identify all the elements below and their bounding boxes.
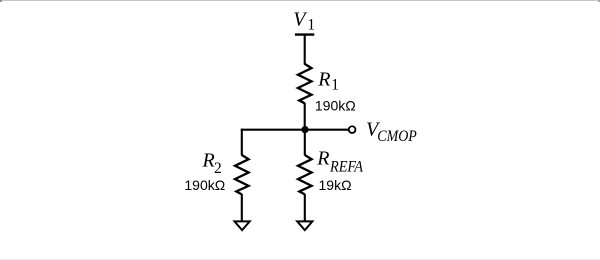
ground (left)	[235, 221, 250, 230]
svg-text:V: V	[293, 9, 308, 31]
svg-text:2: 2	[214, 160, 222, 177]
page top border	[0, 0, 600, 1]
svg-text:CMOP: CMOP	[377, 128, 417, 145]
svg-text:R: R	[317, 69, 330, 91]
wire node to RREFA	[304, 130, 306, 156]
terminal VCMOP open circle	[349, 126, 356, 133]
svg-text:19kΩ: 19kΩ	[319, 177, 352, 193]
wire R2 to ground	[241, 194, 243, 221]
wire node to R2	[241, 129, 243, 156]
wire V1 to R1	[304, 35, 306, 65]
node V1 supply bar	[295, 33, 314, 35]
resistor R1	[298, 64, 312, 103]
ground (right)	[297, 221, 312, 230]
junction node dot	[301, 126, 308, 133]
svg-text:190kΩ: 190kΩ	[184, 177, 225, 193]
svg-text:1: 1	[331, 77, 339, 94]
resistor RREFA	[298, 155, 312, 194]
wire node horizontal	[241, 129, 349, 131]
resistor R2	[235, 155, 249, 194]
svg-text:190kΩ: 190kΩ	[315, 97, 356, 113]
svg-text:1: 1	[307, 17, 315, 34]
wire RREFA to ground	[304, 194, 306, 221]
svg-text:R: R	[202, 149, 215, 171]
page bottom border	[0, 259, 600, 260]
wire R1 to node	[304, 103, 306, 131]
svg-text:REFA: REFA	[329, 159, 363, 176]
svg-text:R: R	[316, 148, 329, 170]
